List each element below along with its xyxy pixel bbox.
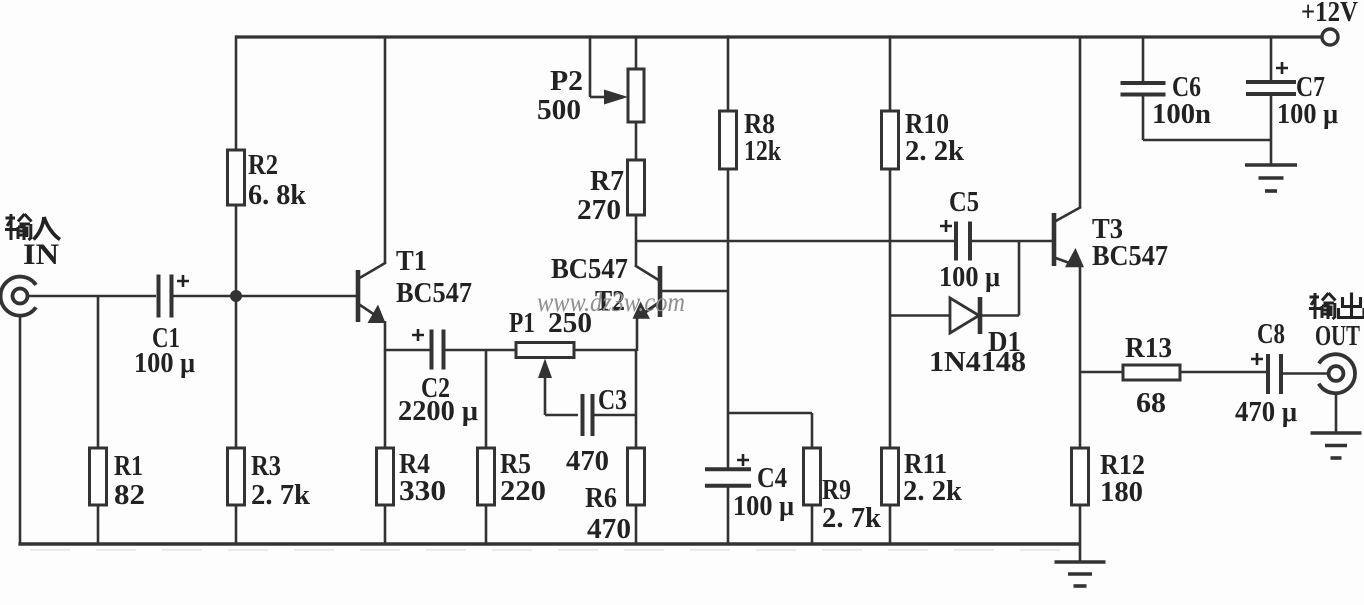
svg-text:1N4148: 1N4148 [929,346,1026,378]
wiper arrow P1 [538,359,552,379]
wire R8 branch down [727,169,730,468]
wire R2 branch from rail [235,35,238,150]
wire R2 to input node [235,205,238,296]
svg-text:R7: R7 [590,165,624,197]
capacitor C6 100n [1142,35,1145,85]
wire bottom ground rail [18,542,1080,546]
svg-text:500: 500 [537,94,581,126]
wire C3 to R6 branch [594,414,637,417]
wire R10 down to D1/R11 [889,169,892,448]
resistor R6 470 [635,350,638,448]
wire C4 to ground rail [727,486,730,545]
resistor R13 68 [1080,371,1123,374]
potentiometer P1 250 [516,343,574,358]
capacitor C8 470u [1266,354,1270,394]
svg-text:470 μ: 470 μ [1235,396,1298,428]
svg-text:100 μ: 100 μ [939,261,1000,293]
capacitor C4 100u [705,467,751,471]
svg-text:100 μ: 100 μ [134,347,195,379]
svg-text:R2: R2 [248,149,278,181]
wire R13 to C8 [1180,371,1266,374]
ground C7 [1245,163,1297,167]
resistor R11 2.2k [882,448,899,505]
svg-text:R13: R13 [1125,332,1172,364]
wire shadow under ground rail [30,549,1060,551]
svg-text:6. 8k: 6. 8k [248,179,307,211]
terminal input connector [1,277,36,316]
wire T3 collector to rail [1079,37,1082,208]
svg-text:2. 2k: 2. 2k [905,135,965,167]
terminal output connector [1319,354,1355,393]
svg-text:220: 220 [500,475,546,507]
resistor R3 2.7k [235,296,238,448]
wire C1 to T1 base [172,295,356,298]
svg-text:100 μ: 100 μ [1277,98,1338,130]
svg-text:82: 82 [114,479,145,511]
svg-text:P2: P2 [550,65,583,97]
svg-text:270: 270 [577,194,621,226]
resistor R1 82 [97,296,100,449]
svg-text:330: 330 [399,475,446,507]
svg-text:BC547: BC547 [551,253,628,285]
wire top +12V supply rail [236,35,1321,38]
wire wiper to C3 [545,414,578,417]
diode D1 1N4148 [890,314,950,317]
potentiometer P2 500 [635,35,638,69]
ground output [1335,393,1338,433]
transistor T3 BC547 [1052,213,1057,266]
label 输出 [1309,293,1336,319]
wire T2 base to R8/R9 divider [661,290,728,293]
node input bias junction [230,290,242,302]
svg-text:100 μ: 100 μ [733,490,794,522]
svg-text:IN: IN [23,238,59,271]
svg-text:R6: R6 [585,482,617,514]
wire P1 to T2 emitter node [574,349,637,352]
wire T1 collector to rail [384,37,387,263]
wiper P2 from rail [589,35,592,97]
svg-text:C3: C3 [598,384,627,416]
label 输入 [5,214,32,240]
svg-text:R3: R3 [251,450,281,482]
wire C2 to P1 [444,349,516,352]
svg-text:2200 μ: 2200 μ [398,395,479,427]
resistor R8 12k [727,35,730,111]
svg-text:470: 470 [587,513,631,545]
transistor T1 BC547 [356,270,361,322]
resistor R5 220 [485,350,488,448]
svg-text:OUT: OUT [1315,320,1360,352]
wire T1 emitter down [384,321,387,351]
wire T2 emitter down to node [636,317,639,351]
svg-text:BC547: BC547 [1092,240,1168,272]
svg-text:C8: C8 [1257,318,1285,350]
svg-text:470: 470 [566,445,609,477]
svg-text:R1: R1 [114,450,143,482]
svg-text:C5: C5 [949,186,979,218]
svg-text:100n: 100n [1152,98,1211,130]
wire R9 branch [728,412,812,415]
svg-text:+12V: +12V [1301,0,1358,28]
svg-text:2. 2k: 2. 2k [903,475,963,507]
svg-text:T1: T1 [396,245,427,277]
capacitor C5 100u [954,222,958,261]
wire C5 to T3 base [970,240,1053,243]
wire T2 collector node to C5 [636,240,954,243]
resistor R10 2.2k [889,35,892,111]
capacitor C1 100u [157,275,161,318]
svg-text:68: 68 [1136,387,1166,419]
resistor R7 270 [628,160,645,215]
resistor R9 2.7k [804,448,821,505]
wire T3 emitter down [1079,266,1082,448]
resistor R12 180 [1072,448,1089,505]
terminal +12V [1322,29,1338,45]
resistor R2 [228,150,245,205]
svg-text:2. 7k: 2. 7k [822,502,882,534]
wire input drop to ground rail [19,315,22,544]
svg-text:180: 180 [1100,476,1143,508]
transistor T2 BC547 (mirrored) [658,266,663,317]
ground main rail [1079,544,1082,562]
svg-text:2. 7k: 2. 7k [251,479,311,511]
wire C8 to output [1281,372,1328,375]
wire input to C1 [28,295,156,298]
capacitor C2 2200u [385,349,430,352]
svg-text:12k: 12k [744,135,782,167]
wire R7 to T2 collector [635,215,638,267]
resistor R4 330 [384,350,387,448]
svg-text:www.dz3w.com: www.dz3w.com [537,287,685,317]
capacitor C7 100u [1270,35,1273,84]
capacitor C3 470 [581,394,585,436]
svg-text:P1: P1 [509,307,535,339]
wire C6-C7 link [1143,139,1271,142]
svg-text:BC547: BC547 [396,277,472,309]
